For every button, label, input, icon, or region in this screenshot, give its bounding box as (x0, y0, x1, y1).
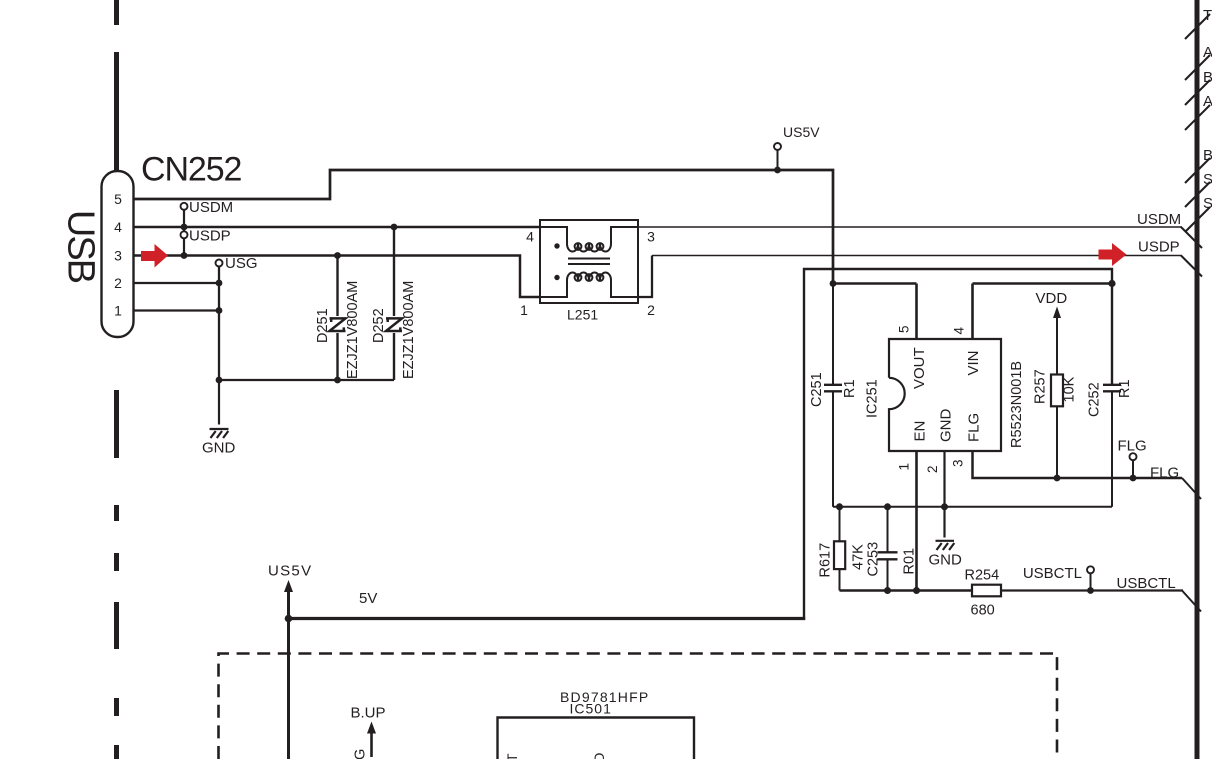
marker red arrow at USB pin3 (141, 244, 168, 268)
svg-text:USDM: USDM (1137, 211, 1181, 228)
node junction pin2 (216, 280, 223, 287)
resistor R254 (972, 585, 1001, 597)
node junction C252 top (1108, 280, 1115, 287)
svg-text:G: G (353, 749, 369, 759)
svg-text:EZJZ1V800AM: EZJZ1V800AM (345, 281, 361, 379)
node FLG terminal circle (1130, 453, 1137, 460)
node junction pin4 stub (181, 224, 188, 231)
svg-text:3: 3 (114, 248, 122, 264)
ground symbol GND (210, 429, 229, 438)
svg-text:2: 2 (925, 465, 940, 473)
wire VIN supply loop (5V riser / top rail / C252 leg) (289, 617, 806, 620)
svg-text:D252: D252 (371, 308, 387, 343)
node junction C253 bottom (884, 587, 891, 594)
wire USG ground stub (218, 266, 220, 380)
node junction USBCTL stub (1087, 587, 1094, 594)
svg-text:L251: L251 (567, 307, 598, 323)
svg-text:C251: C251 (809, 372, 825, 407)
svg-text:EN: EN (912, 421, 929, 442)
node junction R257 FLG (1054, 475, 1061, 482)
wire pin3 FLG net (973, 451, 1183, 478)
wire pin4 to C252 (973, 282, 1113, 285)
bus entry hatch 2 (1185, 55, 1210, 80)
svg-text:3: 3 (647, 229, 655, 245)
wire USDP jog from L251 pin2 (638, 256, 652, 298)
svg-text:T: T (504, 753, 520, 759)
op-amp IC501 regulator body (498, 718, 695, 759)
wire USB pin2 (133, 282, 219, 284)
svg-text:GND: GND (929, 552, 963, 569)
node junction pin2 rail (941, 503, 948, 510)
svg-text:680: 680 (971, 603, 995, 619)
bus entry hatch 1 (1185, 14, 1210, 39)
svg-text:R1: R1 (842, 379, 858, 398)
wire FLG border entry diagonal (1182, 478, 1201, 499)
svg-text:5: 5 (897, 325, 912, 333)
svg-text:USDP: USDP (1138, 239, 1180, 256)
svg-text:1: 1 (114, 303, 122, 319)
svg-text:2: 2 (647, 302, 655, 318)
bus entry hatch 3 (1185, 80, 1210, 105)
svg-text:USBCTL: USBCTL (1117, 575, 1176, 592)
wire USDP to right border (thin) (652, 255, 1182, 257)
svg-text:S: S (1203, 195, 1212, 212)
svg-text:R257: R257 (1033, 369, 1049, 404)
svg-text:GND: GND (938, 409, 955, 443)
wire EN bottom / USBCTL net (840, 589, 973, 591)
op IC251 load switch body (889, 339, 1001, 451)
node USG terminal circle (216, 260, 223, 267)
L251 top winding (pin4-pin3) (540, 227, 638, 252)
node junction pin1 (216, 307, 223, 314)
svg-text:FLG: FLG (966, 413, 983, 442)
wire GND/EN rail (833, 506, 1112, 508)
svg-text:EZJZ1V800AM: EZJZ1V800AM (401, 281, 417, 379)
svg-text:10K: 10K (1062, 376, 1078, 402)
wire VOUT to pin5 (833, 282, 917, 285)
svg-text:VDD: VDD (1036, 290, 1068, 307)
bus entry hatch 6 (1185, 182, 1210, 207)
svg-text:GND: GND (202, 440, 236, 457)
wire USDM/USDP label stub (183, 210, 185, 256)
wire US5V down to lower circuit (287, 619, 290, 759)
svg-text:4: 4 (114, 219, 122, 235)
svg-text:O: O (591, 753, 607, 759)
svg-text:C253: C253 (866, 542, 882, 577)
wire USBCTL border entry diagonal (1182, 591, 1201, 612)
wire USDM border entry diagonal (1181, 227, 1202, 248)
svg-text:US5V: US5V (783, 124, 820, 140)
svg-text:A: A (1203, 44, 1212, 61)
svg-text:USBCTL: USBCTL (1023, 565, 1082, 582)
page border right (1195, 0, 1200, 759)
node junction VOUT (830, 280, 837, 287)
svg-text:47K: 47K (851, 544, 867, 570)
ESD diode D252 (386, 227, 402, 380)
wire USBCTL stub (1090, 573, 1092, 590)
wire USDM to right border (thin) (638, 226, 1182, 228)
wire B.UP arrow shaft (370, 731, 373, 757)
L251 core lines (568, 259, 610, 265)
wire pin2 GND stub down (943, 451, 945, 538)
svg-text:USDM: USDM (189, 199, 233, 216)
resistor R617 (834, 507, 845, 591)
svg-text:S: S (1203, 171, 1212, 188)
svg-text:B: B (1203, 69, 1212, 86)
wire R254 to border (1001, 589, 1183, 591)
svg-text:2: 2 (114, 275, 122, 291)
page border left (dashed) (114, 0, 119, 759)
node junction R617 top (836, 503, 843, 510)
bus entry hatch 4 (1185, 105, 1210, 130)
dashed block boundary (219, 654, 1058, 759)
svg-text:US5V: US5V (268, 563, 312, 580)
svg-text:4: 4 (952, 327, 967, 335)
svg-text:R1: R1 (1117, 379, 1133, 398)
svg-text:4: 4 (526, 229, 534, 245)
svg-text:3: 3 (951, 459, 966, 467)
svg-text:IC501: IC501 (570, 701, 612, 717)
svg-text:R01: R01 (902, 548, 918, 575)
wire ground rail to diodes (219, 379, 394, 381)
svg-text:USB: USB (60, 210, 102, 283)
capacitor C253 (878, 507, 898, 591)
capacitor C252 (1103, 385, 1121, 507)
svg-text:IC251: IC251 (865, 379, 881, 418)
svg-text:VIN: VIN (965, 350, 982, 375)
node US5V terminal circle (774, 143, 781, 150)
wire USB pin1 (133, 309, 219, 311)
L251 polarity dot bottom (554, 275, 559, 280)
svg-text:B: B (1203, 147, 1212, 164)
bus entry hatch 7 (1185, 207, 1210, 232)
wire US5V stub (777, 150, 779, 170)
wire USB pin3 USDP (133, 256, 540, 298)
connector CN252 body (102, 171, 134, 337)
svg-text:D251: D251 (315, 308, 331, 343)
svg-text:VOUT: VOUT (911, 347, 928, 389)
wire US5V arrow shaft (287, 590, 290, 619)
svg-text:1: 1 (897, 463, 912, 471)
svg-text:FLG: FLG (1150, 465, 1179, 482)
L251 bottom winding (pin1-pin2) (540, 273, 638, 297)
capacitor C251 (824, 284, 842, 507)
wire USB pin4 USDM (133, 226, 540, 229)
common-mode choke L251 box (540, 220, 638, 303)
node junction D251 gnd (334, 377, 341, 384)
svg-text:5: 5 (114, 191, 122, 207)
node USDM terminal circle (181, 203, 188, 210)
svg-text:USDP: USDP (189, 228, 231, 245)
node US5V top junction (774, 167, 781, 174)
ESD diode D251 (330, 256, 346, 381)
svg-text:CN252: CN252 (141, 151, 242, 189)
wire FLG stub (1132, 460, 1134, 478)
ground symbol (IC251 GND) (936, 541, 955, 550)
svg-text:USG: USG (225, 255, 258, 272)
node junction D251 USDP (334, 252, 341, 259)
svg-text:FLG: FLG (1118, 438, 1147, 455)
svg-text:A: A (1203, 93, 1212, 110)
resistor R257 (1051, 317, 1063, 478)
wire pin5 stub (915, 284, 918, 340)
node junction gnd corner (216, 377, 223, 384)
wire stub to GND symbol (218, 380, 220, 425)
wire USB pin5 to US5V rail (133, 170, 833, 284)
svg-text:T: T (1203, 7, 1212, 24)
svg-text:R5523N001B: R5523N001B (1009, 361, 1025, 448)
wire pin4 stub (971, 284, 974, 340)
svg-text:R254: R254 (965, 568, 1000, 584)
node USDP terminal circle (181, 231, 188, 238)
svg-text:5V: 5V (359, 590, 377, 607)
node junction pin1 bottom (913, 587, 920, 594)
bus entry hatch 5 (1185, 158, 1210, 183)
svg-text:1: 1 (520, 302, 528, 318)
L251 polarity dot top (554, 243, 559, 248)
node junction D252 USDM (391, 224, 398, 231)
node USBCTL terminal circle (1087, 566, 1094, 573)
wire USDP border entry diagonal (1181, 256, 1202, 277)
wire pin1 EN stub down (915, 451, 918, 591)
svg-text:B.UP: B.UP (351, 705, 386, 722)
node junction pin3 stub (181, 252, 188, 259)
node junction FLG stub (1130, 475, 1137, 482)
node junction US5V 5V rail (285, 615, 293, 623)
svg-text:R617: R617 (818, 543, 834, 578)
node junction C253 top (884, 503, 891, 510)
marker red arrow at USDP right (1099, 243, 1127, 266)
svg-text:C252: C252 (1087, 382, 1103, 417)
